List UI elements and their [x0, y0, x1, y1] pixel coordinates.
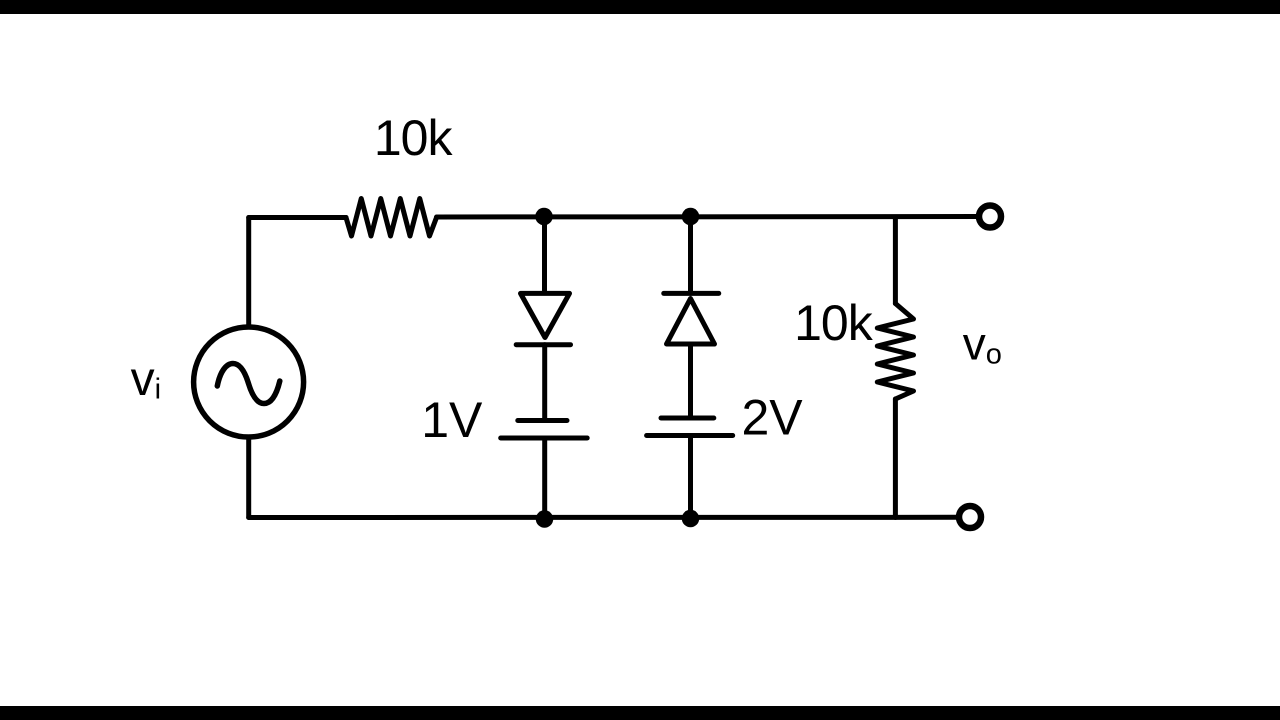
terminal + (vo output, top) [979, 206, 1001, 228]
wire: resistor R2 to bottom rail [893, 399, 898, 518]
wire: source top to top-left corner [246, 218, 251, 328]
node junction dot at D1 top [535, 208, 553, 226]
label 2V [742, 390, 804, 446]
label 10k (R2) [794, 295, 874, 351]
terminal - (vo output, bottom) [959, 506, 981, 528]
node junction dot at D1 bottom [536, 510, 554, 528]
wire: bottom rail [249, 515, 957, 520]
diode D1 (anode top, pointing down) [516, 293, 570, 344]
sine symbol inside source [217, 364, 279, 404]
svg-text:10k: 10k [374, 110, 454, 166]
label 1V [421, 392, 483, 448]
svg-text:vi: vi [131, 353, 161, 406]
node junction dot at D2 top [682, 208, 700, 226]
wire: battery V1 to bottom rail [542, 438, 547, 518]
label vi [131, 353, 161, 406]
svg-text:10k: 10k [794, 295, 874, 351]
label vo [963, 318, 1002, 371]
resistor R2 10k (vertical zigzag) [877, 304, 913, 400]
wire: top-left corner to resistor R1 [249, 215, 346, 220]
svg-text:1V: 1V [421, 392, 483, 448]
voltage source Vi (AC source circle) [194, 327, 304, 437]
wire: top rail from R1 to output terminal [437, 214, 977, 220]
top letterbox bar [0, 0, 1280, 14]
wire: battery V2 to bottom rail [688, 436, 693, 518]
svg-text:vo: vo [963, 318, 1002, 371]
resistor R1 10k (horizontal zigzag) [346, 199, 437, 237]
wire: D2 anode to battery V2 [688, 344, 693, 418]
label 10k (R1) [374, 110, 454, 166]
battery V2 (2V) [647, 418, 733, 436]
bottom letterbox bar [0, 706, 1280, 720]
wire: top rail to diode D1 [542, 217, 547, 293]
wire: source bottom to bottom-left corner [246, 437, 251, 518]
diode D2 (cathode top, pointing up) [664, 293, 719, 344]
wire: D1 cathode to battery V1 [542, 345, 547, 421]
wire: top rail down to resistor R2 [893, 217, 898, 304]
battery V1 (1V) [501, 421, 588, 439]
node junction dot at D2 bottom [682, 510, 700, 528]
wire: top rail to diode D2 cathode [688, 217, 693, 293]
svg-text:2V: 2V [742, 390, 804, 446]
